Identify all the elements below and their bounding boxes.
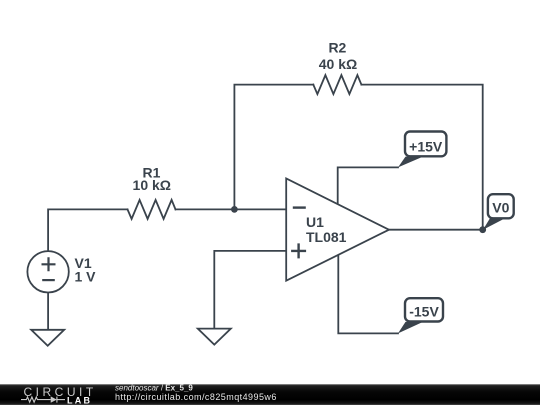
svg-text:-15V: -15V <box>409 303 439 319</box>
svg-text:40 kΩ: 40 kΩ <box>319 56 357 72</box>
svg-text:http://circuitlab.com/c825mqt4: http://circuitlab.com/c825mqt4995w6 <box>115 392 277 402</box>
svg-text:10 kΩ: 10 kΩ <box>133 177 171 193</box>
svg-text:TL081: TL081 <box>306 229 347 245</box>
svg-text:R2: R2 <box>328 40 346 56</box>
svg-text:+15V: +15V <box>409 138 443 154</box>
svg-text:V0: V0 <box>492 200 509 216</box>
svg-text:1 V: 1 V <box>75 269 97 285</box>
svg-text:LAB: LAB <box>67 395 92 405</box>
svg-text:U1: U1 <box>306 214 324 230</box>
